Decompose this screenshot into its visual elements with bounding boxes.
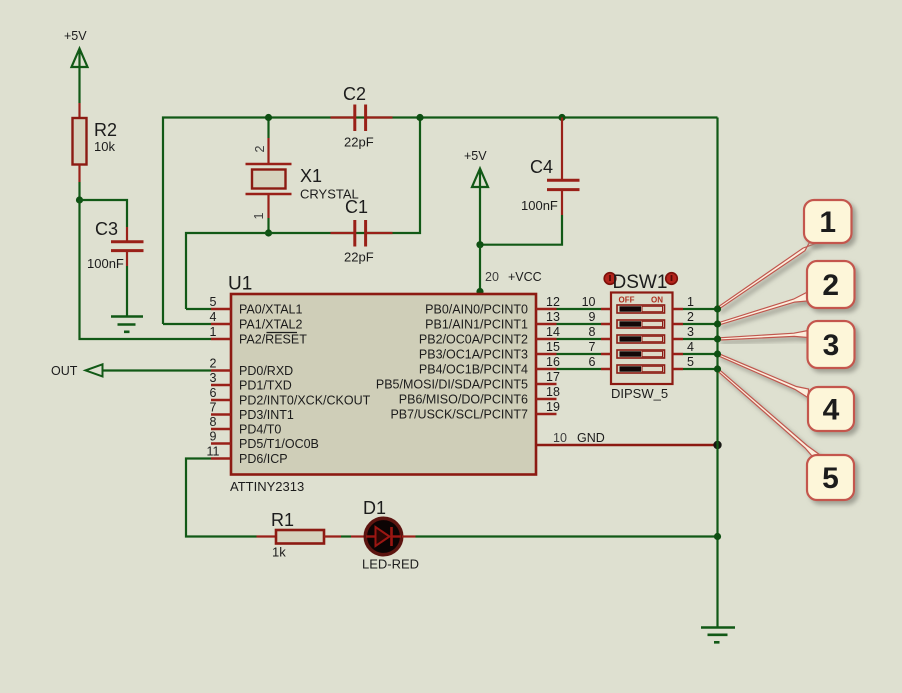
- svg-text:ON: ON: [651, 296, 663, 305]
- svg-text:5: 5: [822, 462, 839, 495]
- DSW1 left pin stubs: [601, 309, 611, 369]
- wire node A to C3: [80, 200, 128, 241]
- right rail wire: [716, 118, 718, 628]
- svg-text:+VCC: +VCC: [508, 270, 542, 284]
- wire +VCC stem: [479, 245, 481, 293]
- svg-text:PB6/MISO/DO/PCINT6: PB6/MISO/DO/PCINT6: [399, 393, 528, 407]
- svg-text:17: 17: [546, 370, 560, 384]
- svg-text:10: 10: [553, 431, 567, 445]
- wire C4 bottom lead: [480, 191, 562, 245]
- DSW1 left pin numbers: [582, 295, 596, 369]
- svg-text:4: 4: [210, 310, 217, 324]
- svg-text:PB3/OC1A/PCINT3: PB3/OC1A/PCINT3: [419, 348, 528, 362]
- svg-text:PA2/RESET: PA2/RESET: [239, 333, 307, 347]
- svg-text:10: 10: [582, 295, 596, 309]
- svg-text:PA1/XTAL2: PA1/XTAL2: [239, 318, 303, 332]
- U1 right pin names: [376, 303, 528, 422]
- dip switch slider row 5: [617, 365, 665, 373]
- node DSW row 5: [714, 365, 721, 372]
- svg-text:PD3/INT1: PD3/INT1: [239, 408, 294, 422]
- DSW1 right pin numbers: [687, 295, 694, 369]
- wire top rail to pin 4: [163, 323, 211, 325]
- resistor R2: [73, 118, 118, 165]
- node C4 top: [558, 114, 565, 121]
- U1 left pin stubs: [211, 309, 231, 459]
- svg-text:2: 2: [822, 269, 839, 302]
- svg-text:22pF: 22pF: [344, 135, 374, 150]
- svg-text:4: 4: [687, 340, 694, 354]
- svg-text:100nF: 100nF: [521, 198, 558, 213]
- svg-text:+5V: +5V: [64, 29, 87, 43]
- svg-text:13: 13: [546, 310, 560, 324]
- wire C4 top lead: [561, 118, 563, 181]
- node crystal bottom: [265, 229, 272, 236]
- node pin 20: [476, 288, 483, 295]
- node crystal top: [265, 114, 272, 121]
- svg-text:18: 18: [546, 385, 560, 399]
- ground (bottom right): [701, 628, 735, 643]
- DSW1 marker circle left: [604, 273, 616, 285]
- power +5V symbol (middle): [464, 149, 488, 245]
- node +5V / C4: [476, 241, 483, 248]
- DSW1 right pin stubs: [673, 309, 684, 369]
- crystal X1: [246, 164, 359, 202]
- svg-text:PB0/AIN0/PCINT0: PB0/AIN0/PCINT0: [425, 303, 528, 317]
- U1 right pin stubs: [536, 309, 557, 414]
- svg-text:C1: C1: [345, 197, 368, 217]
- wires U1 to DSW1: [557, 309, 602, 369]
- svg-text:19: 19: [546, 400, 560, 414]
- capacitor C4: [521, 157, 580, 213]
- pin 10 GND wire: [536, 444, 716, 446]
- ground (under C3): [111, 317, 143, 332]
- callout wedge 2: [717, 292, 807, 325]
- wire LED to rail: [402, 535, 718, 537]
- svg-text:DSW1: DSW1: [613, 272, 668, 293]
- node DSW row 2: [714, 320, 721, 327]
- svg-text:8: 8: [589, 325, 596, 339]
- svg-text:1: 1: [819, 206, 836, 239]
- callout label 5: [807, 455, 854, 500]
- wire crystal bottom branch: [267, 194, 269, 233]
- svg-text:12: 12: [546, 295, 560, 309]
- capacitor C3: [87, 219, 144, 271]
- svg-text:LED-RED: LED-RED: [362, 557, 419, 572]
- svg-text:10k: 10k: [94, 139, 115, 154]
- svg-text:6: 6: [589, 355, 596, 369]
- callout label 4: [808, 387, 854, 431]
- svg-text:C4: C4: [530, 157, 553, 177]
- RESET overline: [267, 332, 298, 334]
- LED D1: [362, 498, 419, 572]
- wire OUT to pin 2: [103, 369, 211, 371]
- svg-text:PD4/T0: PD4/T0: [239, 423, 281, 437]
- svg-text:OFF: OFF: [619, 296, 635, 305]
- wire to pin 5: [186, 308, 211, 310]
- svg-text:PA0/XTAL1: PA0/XTAL1: [239, 303, 303, 317]
- svg-text:PD5/T1/OC0B: PD5/T1/OC0B: [239, 437, 319, 451]
- svg-text:2: 2: [687, 310, 694, 324]
- top rail wire: [163, 118, 718, 325]
- capacitor C2: [331, 84, 393, 150]
- svg-text:ATTINY2313: ATTINY2313: [230, 479, 304, 494]
- wire node A down to PA2 row: [80, 200, 212, 339]
- node DSW row 4: [714, 350, 721, 357]
- dip switch slider row 2: [617, 320, 665, 328]
- svg-text:X1: X1: [300, 166, 322, 186]
- wire pin 11 to R1: [186, 459, 257, 537]
- callout label 2: [807, 261, 855, 308]
- wire +5V to R2 (red lead): [78, 103, 80, 119]
- svg-text:C2: C2: [343, 84, 366, 104]
- svg-text:14: 14: [546, 325, 560, 339]
- svg-text:PD1/TXD: PD1/TXD: [239, 379, 292, 393]
- OUT terminal: [51, 364, 103, 378]
- svg-text:2: 2: [253, 146, 267, 153]
- node C2 right: [416, 114, 423, 121]
- svg-text:7: 7: [210, 401, 217, 415]
- svg-text:PB7/USCK/SCL/PCINT7: PB7/USCK/SCL/PCINT7: [390, 408, 528, 422]
- svg-text:20: 20: [485, 270, 499, 284]
- svg-text:PD6/ICP: PD6/ICP: [239, 452, 288, 466]
- op IC U1 body: [228, 274, 536, 495]
- callout label 1: [804, 200, 852, 243]
- svg-text:DIPSW_5: DIPSW_5: [611, 386, 668, 401]
- R1 right lead: [324, 535, 364, 537]
- svg-text:R2: R2: [94, 120, 117, 140]
- svg-text:9: 9: [589, 310, 596, 324]
- node DSW row 1: [714, 305, 721, 312]
- power +5V symbol (top left): [64, 29, 88, 103]
- svg-text:3: 3: [210, 371, 217, 385]
- svg-text:D1: D1: [363, 498, 386, 518]
- svg-text:PB1/AIN1/PCINT1: PB1/AIN1/PCINT1: [425, 318, 528, 332]
- R1 left lead: [257, 535, 277, 537]
- wire R2 to node A: [78, 165, 80, 201]
- svg-text:11: 11: [207, 445, 220, 459]
- svg-text:5: 5: [687, 355, 694, 369]
- svg-text:1: 1: [210, 325, 217, 339]
- svg-text:16: 16: [546, 355, 560, 369]
- svg-text:OUT: OUT: [51, 364, 78, 378]
- svg-text:C3: C3: [95, 219, 118, 239]
- resistor R1: [271, 510, 324, 560]
- svg-text:9: 9: [210, 430, 217, 444]
- svg-text:PD2/INT0/XCK/CKOUT: PD2/INT0/XCK/CKOUT: [239, 394, 371, 408]
- dip switch slider row 4: [617, 350, 665, 358]
- U1 right pin numbers: [546, 295, 560, 414]
- svg-text:7: 7: [589, 340, 596, 354]
- U1 left pin names: [239, 303, 371, 467]
- dip switch slider row 3: [617, 335, 665, 343]
- U1 left pin numbers: [207, 295, 220, 459]
- svg-text:5: 5: [210, 295, 217, 309]
- callout wedge 4: [717, 353, 808, 398]
- svg-text:8: 8: [210, 415, 217, 429]
- bottom crystal rail wire: [186, 118, 420, 310]
- svg-text:+5V: +5V: [464, 149, 487, 163]
- svg-text:6: 6: [210, 386, 217, 400]
- callout wedge 5: [717, 369, 822, 456]
- callout wedge 3: [717, 331, 808, 341]
- wires DSW1 to rail: [683, 309, 718, 369]
- svg-text:2: 2: [210, 357, 217, 371]
- node A junction: [76, 196, 83, 203]
- callout wedge 1: [717, 242, 821, 310]
- node DSW row 3: [714, 335, 721, 342]
- capacitor C1: [331, 197, 393, 265]
- DSW1 marker circle right: [666, 273, 678, 285]
- svg-text:1: 1: [252, 213, 266, 220]
- wire C3 to ground: [126, 252, 128, 316]
- svg-text:PB4/OC1B/PCINT4: PB4/OC1B/PCINT4: [419, 363, 528, 377]
- svg-text:GND: GND: [577, 431, 605, 445]
- svg-text:U1: U1: [228, 274, 252, 295]
- svg-text:PB5/MOSI/DI/SDA/PCINT5: PB5/MOSI/DI/SDA/PCINT5: [376, 378, 528, 392]
- dip switch slider row 1: [617, 305, 665, 313]
- svg-text:1: 1: [687, 295, 694, 309]
- svg-text:PB2/OC0A/PCINT2: PB2/OC0A/PCINT2: [419, 333, 528, 347]
- svg-text:3: 3: [687, 325, 694, 339]
- callout label 3: [808, 321, 855, 368]
- node GND rail: [713, 441, 721, 449]
- wire crystal top branch: [267, 118, 269, 165]
- svg-text:100nF: 100nF: [87, 256, 124, 271]
- svg-text:4: 4: [823, 394, 840, 427]
- node LED rail: [714, 533, 721, 540]
- dip switch DSW1: [611, 272, 673, 401]
- svg-text:22pF: 22pF: [344, 250, 374, 265]
- svg-text:R1: R1: [271, 510, 294, 530]
- svg-text:1k: 1k: [272, 545, 286, 560]
- svg-text:15: 15: [546, 340, 560, 354]
- svg-text:PD0/RXD: PD0/RXD: [239, 364, 293, 378]
- svg-text:3: 3: [823, 329, 840, 362]
